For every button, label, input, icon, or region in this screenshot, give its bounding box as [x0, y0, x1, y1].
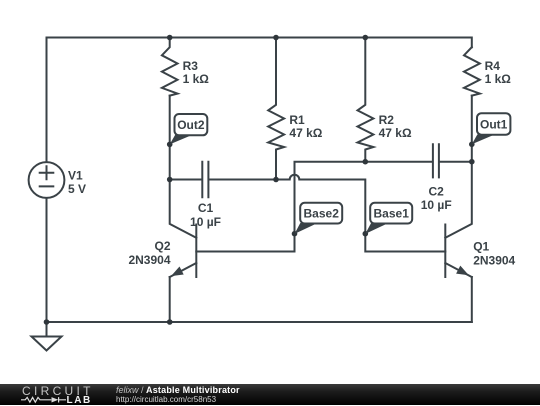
flag Out1	[472, 113, 511, 144]
svg-text:Base1: Base1	[374, 206, 410, 220]
wire node Base1: C1 right to R1 bottom, hop, to Q1 base	[209, 175, 445, 252]
ground	[32, 337, 62, 351]
svg-text:R2: R2	[379, 113, 395, 127]
svg-text:V1: V1	[68, 169, 83, 183]
transistor Q1 emitter arrow	[456, 266, 469, 276]
svg-text:10 µF: 10 µF	[190, 215, 221, 229]
wire top rail and left rail	[47, 38, 472, 162]
wire R3 bottom to Q2 collector	[170, 96, 197, 238]
transistor Q1	[444, 225, 446, 278]
resistor R1	[268, 38, 284, 180]
capacitor C2	[433, 144, 439, 177]
wire bottom rail	[47, 321, 472, 323]
CircuitLab logo text CIRCUIT	[22, 386, 102, 396]
attribution line 1	[116, 386, 240, 395]
resistor R2	[358, 38, 374, 162]
voltage source V1	[29, 162, 65, 198]
capacitor C1	[170, 179, 202, 181]
svg-text:C1: C1	[198, 201, 214, 215]
transistor Q2	[195, 225, 197, 278]
svg-text:1 kΩ: 1 kΩ	[183, 72, 210, 86]
svg-text:10 µF: 10 µF	[421, 198, 452, 212]
wire R4 bottom to Q1 collector	[445, 96, 472, 238]
transistor Q2 emitter arrow	[171, 267, 184, 277]
svg-text:R1: R1	[289, 113, 305, 127]
svg-text:47 kΩ: 47 kΩ	[379, 126, 412, 140]
svg-text:C2: C2	[429, 185, 445, 199]
svg-text:2N3904: 2N3904	[473, 254, 515, 268]
svg-text:Out1: Out1	[480, 117, 508, 131]
resistor R3	[162, 38, 178, 96]
CircuitLab logo text LAB	[67, 396, 92, 405]
flag Out2	[170, 114, 208, 144]
svg-text:Q2: Q2	[154, 239, 170, 253]
svg-text:Q1: Q1	[473, 240, 489, 254]
wire left rail lower	[46, 198, 48, 337]
svg-text:47 kΩ: 47 kΩ	[289, 126, 322, 140]
svg-text:2N3904: 2N3904	[128, 253, 170, 267]
svg-text:Base2: Base2	[304, 206, 340, 220]
flag Base1	[365, 203, 412, 234]
svg-text:Out2: Out2	[177, 118, 205, 132]
svg-text:R4: R4	[485, 59, 501, 73]
resistor R4	[464, 47, 480, 95]
svg-text:5 V: 5 V	[68, 182, 86, 196]
flag Base2	[295, 203, 343, 234]
attribution line 2	[116, 395, 216, 404]
CircuitLab logo squiggle (resistor + diode)	[21, 395, 67, 405]
wire Q2 base / node Base2 to C2 left	[196, 162, 432, 252]
svg-text:1 kΩ: 1 kΩ	[485, 72, 512, 86]
svg-text:R3: R3	[183, 59, 199, 73]
